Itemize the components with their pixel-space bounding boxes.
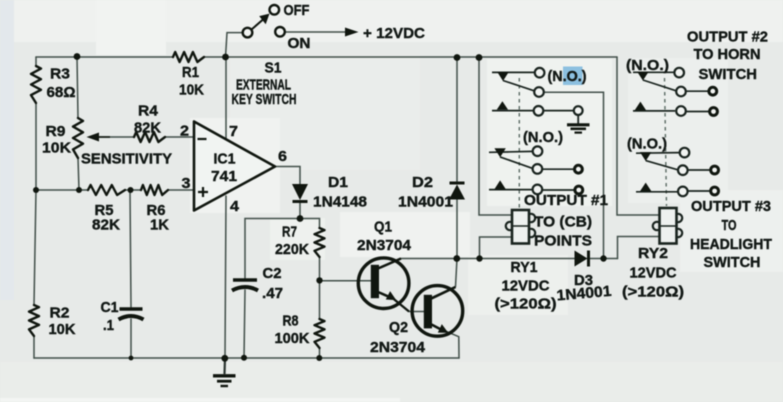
svg-text:C2: C2 — [263, 265, 282, 282]
ground (main, below pin 4) — [213, 358, 236, 386]
wire noninverting line R5 R6 — [36, 189, 194, 191]
svg-text:10K: 10K — [49, 321, 76, 338]
transistor Q2 2N3704 — [412, 286, 463, 337]
svg-text:Q2: Q2 — [389, 319, 408, 336]
RY2 contact set 2 row 4 (N.O. fixed) — [636, 148, 689, 161]
wire RY1 coil feed from rail — [479, 57, 512, 215]
RY1 contact set 2 common (row 5) — [533, 164, 583, 174]
svg-text:SWITCH: SWITCH — [699, 66, 758, 83]
svg-text:R2: R2 — [50, 305, 70, 322]
wire op-amp pin 4 — [225, 196, 226, 358]
wire D1 cathode to node — [299, 202, 301, 219]
resistor R8 — [315, 319, 325, 348]
node RY1 coil top — [476, 54, 483, 61]
wire R4 wiper line to pin 2 — [96, 136, 194, 138]
svg-text:12VDC: 12VDC — [630, 265, 677, 282]
node C1 top — [128, 187, 134, 193]
svg-text:R9: R9 — [46, 123, 66, 140]
node RY1 coil return — [476, 255, 482, 261]
svg-text:82K: 82K — [134, 120, 161, 137]
svg-text:.47: .47 — [262, 285, 283, 302]
resistor R7 — [315, 228, 325, 257]
node D2 top — [454, 54, 461, 61]
diode D1 1N4148 — [292, 184, 308, 202]
svg-text:SWITCH: SWITCH — [704, 254, 761, 271]
wire left rail — [34, 57, 36, 358]
RY1 contact set 2 armature — [500, 157, 532, 168]
svg-text:OUTPUT #1: OUTPUT #1 — [524, 192, 608, 209]
svg-text:R3: R3 — [50, 66, 70, 83]
resistor R6 — [141, 185, 168, 195]
svg-text:68Ω: 68Ω — [47, 84, 76, 101]
resistor R4 — [134, 132, 165, 142]
wire RY2 coil return to bus — [618, 237, 661, 259]
wire ON contact to +12VDC arrow — [285, 31, 346, 33]
RY1 contact set 1 common (row 2) — [534, 87, 544, 97]
wire node to R7 — [300, 219, 320, 229]
RY1 contact set 1 armature — [503, 81, 534, 91]
wire R7 bottom to R8 top — [319, 257, 321, 319]
wire R9 branch vertical — [77, 57, 79, 190]
svg-text:.1: .1 — [103, 317, 114, 334]
svg-text:100K: 100K — [275, 330, 310, 347]
RY1 contact set 1 row 1 (N.O. fixed) — [492, 68, 544, 81]
wire node to Q1 base — [320, 280, 372, 282]
relay coil RY2 — [653, 208, 682, 244]
RY2 contact set 2 common (row 5) — [678, 165, 718, 175]
RY1 contact set 2 row 6 (lower fixed) — [489, 180, 583, 194]
svg-text:R4: R4 — [138, 103, 159, 120]
svg-text:OUTPUT #2: OUTPUT #2 — [687, 29, 768, 46]
svg-text:IC1: IC1 — [214, 151, 236, 168]
node R9 bottom — [76, 187, 82, 193]
RY2 mechanical linkage (dashed) — [665, 78, 667, 206]
resistor R5 — [88, 185, 125, 195]
svg-text:(>120Ω): (>120Ω) — [622, 284, 684, 301]
node R1/S1/pin7 — [222, 54, 229, 61]
wire R8 bottom to rail — [319, 348, 321, 358]
RY1 mechanical linkage (dashed) — [518, 78, 520, 208]
svg-text:2N3704: 2N3704 — [370, 339, 426, 356]
svg-text:RY1: RY1 — [511, 259, 538, 276]
svg-text:KEY SWITCH: KEY SWITCH — [232, 91, 297, 108]
wire collector bus y258 — [401, 258, 618, 260]
resistor R1 — [173, 52, 204, 62]
svg-text:RY2: RY2 — [638, 245, 668, 262]
diode D3 1N4001 — [575, 251, 589, 267]
svg-text:OUTPUT #3: OUTPUT #3 — [691, 198, 771, 215]
wire Q2 collector riser — [432, 259, 458, 298]
svg-text:R7: R7 — [282, 224, 297, 241]
svg-text:741: 741 — [211, 168, 237, 185]
svg-text:S1: S1 — [265, 60, 282, 77]
RY2 contact set 1 common (row 2) — [676, 87, 716, 97]
svg-text:R1: R1 — [182, 64, 199, 81]
wire Q2 base horizontal — [409, 311, 424, 313]
svg-text:3: 3 — [182, 175, 191, 192]
wire S1 pole to rail — [226, 33, 243, 57]
op-amp IC1 741 — [194, 122, 275, 211]
wire RY1 coil return to bus — [480, 237, 513, 259]
svg-text:TO (CB): TO (CB) — [534, 214, 592, 231]
capacitor C2 — [232, 280, 258, 291]
svg-text:TO HORN: TO HORN — [694, 46, 761, 63]
svg-text:+ 12VDC: + 12VDC — [363, 25, 425, 42]
ground (RY1 row 3 contact) — [567, 115, 590, 133]
svg-text:2N3704: 2N3704 — [357, 237, 412, 254]
transistor Q1 2N3704 — [358, 258, 409, 312]
RY1 contact set 1 row 3 (lower fixed) — [492, 101, 583, 115]
svg-text:SENSITIVITY: SENSITIVITY — [81, 151, 172, 168]
svg-text:D2: D2 — [412, 174, 433, 191]
svg-text:POINTS: POINTS — [534, 233, 592, 250]
svg-text:6: 6 — [278, 148, 287, 165]
node C1 bottom — [129, 356, 134, 361]
wire Q2 emitter to rail — [443, 330, 459, 358]
node D1 cathode — [297, 215, 304, 222]
node D2/Q2 collector — [453, 255, 460, 262]
RY1 contact set 2 row 4 (N.O. fixed) — [489, 146, 542, 157]
svg-text:1K: 1K — [150, 217, 169, 234]
svg-text:1N4001: 1N4001 — [398, 194, 453, 211]
wire node to C2 — [244, 219, 300, 359]
svg-text:(>120Ω): (>120Ω) — [495, 296, 557, 313]
svg-text:7: 7 — [229, 123, 238, 140]
svg-text:TO: TO — [722, 217, 737, 234]
svg-text:10K: 10K — [42, 140, 71, 157]
wire op-amp pin 7 — [225, 57, 227, 139]
node R8 bottom — [316, 355, 322, 361]
svg-text:82K: 82K — [92, 217, 120, 234]
wire RY1 common row2 to bus — [544, 92, 604, 258]
RY2 contact set 2 armature — [646, 161, 678, 170]
RY2 contact set 1 row 1 (N.O. fixed) — [633, 68, 684, 81]
svg-text:(N.O.): (N.O.) — [548, 68, 587, 85]
switch S1 external key switch — [243, 5, 285, 37]
svg-text:10K: 10K — [179, 82, 204, 99]
wire D2 vertical — [456, 57, 458, 259]
wire bottom ground rail — [34, 357, 459, 359]
RY2 contact set 1 row 3 (lower fixed) — [633, 102, 717, 116]
highlight on first (N.O.) — [563, 67, 583, 86]
capacitor C1 — [119, 309, 144, 320]
node R7/R8/Q1 base — [316, 277, 322, 283]
potentiometer R9 — [73, 118, 83, 158]
+12VDC supply arrow — [345, 28, 359, 37]
RY2 contact set 1 armature — [643, 80, 676, 91]
wire C1 branch — [130, 190, 131, 358]
svg-text:4: 4 — [230, 198, 240, 215]
node R3/R9 top — [74, 53, 81, 60]
node C2 bottom — [241, 355, 247, 361]
svg-text:HEADLIGHT: HEADLIGHT — [690, 236, 772, 253]
svg-text:OFF: OFF — [284, 2, 310, 19]
node ground stem — [221, 355, 228, 362]
svg-text:ON: ON — [288, 35, 311, 52]
svg-text:(N.O.): (N.O.) — [626, 57, 669, 74]
wire top +12V rail — [36, 56, 617, 58]
node D3 cathode / RY2 return — [600, 255, 606, 261]
svg-text:2: 2 — [180, 123, 189, 140]
wire pin 6 to D1 — [275, 167, 300, 185]
svg-text:220K: 220K — [275, 241, 309, 258]
RY2 contact set 2 row 6 (lower fixed) — [636, 183, 718, 197]
resistor R2 — [29, 305, 39, 336]
svg-text:(N.O.): (N.O.) — [627, 136, 667, 153]
svg-text:C1: C1 — [101, 299, 119, 316]
R9 wiper arrow — [87, 133, 111, 142]
svg-text:12VDC: 12VDC — [502, 278, 550, 295]
svg-text:(N.O.): (N.O.) — [523, 129, 563, 146]
resistor R3 — [31, 66, 41, 103]
svg-text:1N4148: 1N4148 — [313, 194, 367, 211]
wire rail right end down to RY2 coil — [617, 57, 660, 215]
svg-text:R8: R8 — [283, 313, 299, 330]
svg-text:D1: D1 — [328, 174, 348, 191]
node left rail / R5 line — [33, 187, 39, 193]
relay coil RY1 — [506, 210, 535, 244]
svg-text:Q1: Q1 — [374, 219, 392, 236]
diode D2 1N4001 — [449, 183, 465, 200]
